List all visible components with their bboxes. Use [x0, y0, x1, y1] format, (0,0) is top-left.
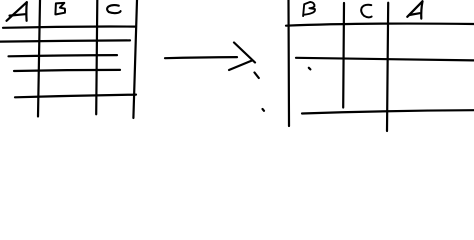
right table left edge line	[287, 0, 290, 126]
right table header letter A	[407, 1, 422, 18]
right table row line 2	[296, 58, 474, 61]
right table header letter C	[361, 5, 371, 18]
left table column line 1	[38, 0, 40, 117]
stray dot in right table	[309, 68, 311, 70]
left table row line 4	[14, 70, 120, 71]
left table row line 5	[15, 95, 136, 98]
stray tick below arrow head	[255, 73, 259, 79]
left table row line 1	[3, 27, 136, 28]
left table header letter c	[107, 5, 121, 13]
right table header letter B	[303, 2, 315, 16]
arrow head upper stroke	[234, 43, 255, 63]
left table right edge line	[133, 0, 137, 118]
stray dot below arrow	[263, 109, 265, 111]
arrow shaft	[165, 57, 237, 58]
right table column line 1	[342, 3, 345, 108]
left table row line 3	[9, 55, 118, 56]
left table row line 2	[0, 40, 130, 41]
left table column line 2	[96, 0, 97, 114]
right table column line 2	[387, 3, 388, 131]
left table header letter B	[55, 3, 65, 15]
arrow head lower stroke	[229, 61, 252, 71]
left table header letter A	[7, 2, 27, 21]
right table row line 3	[302, 110, 474, 113]
right table row line 1	[286, 24, 474, 26]
